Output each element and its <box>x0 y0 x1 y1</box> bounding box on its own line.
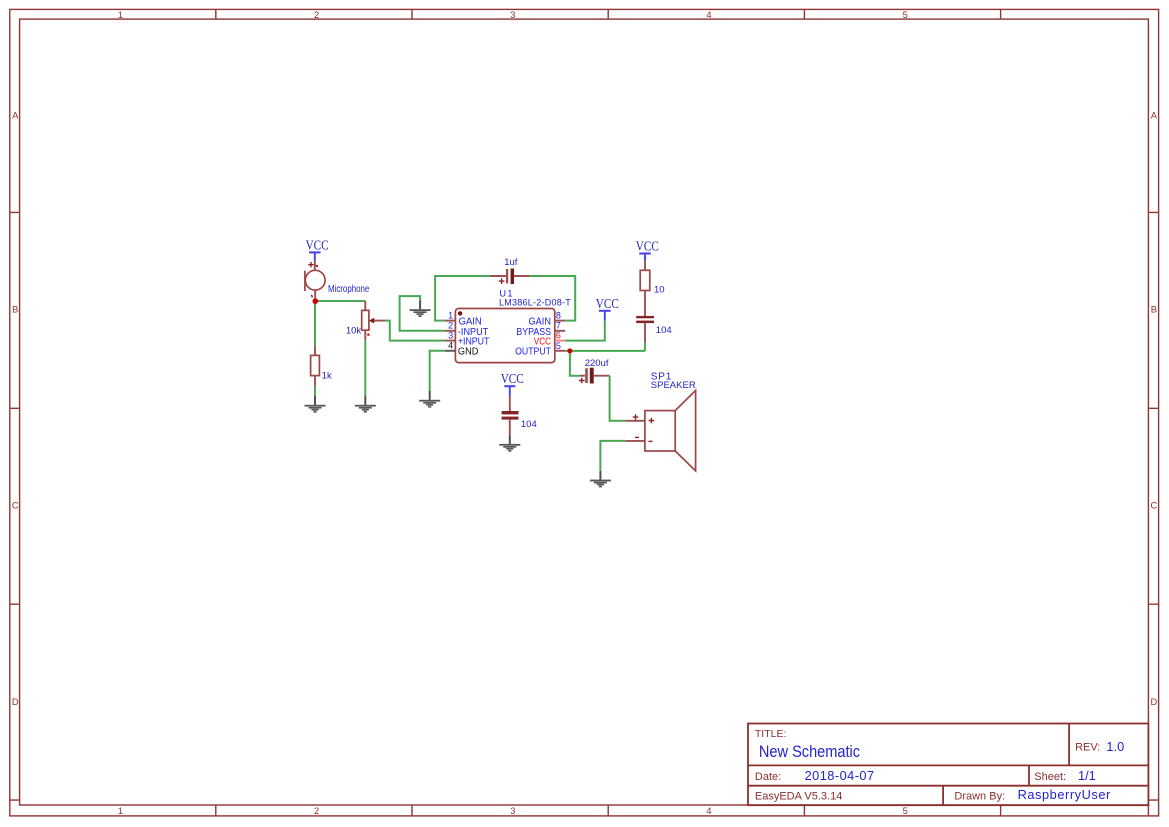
pin 8 GAIN <box>555 320 565 322</box>
ground mid loop <box>410 300 431 317</box>
svg-text:1uf: 1uf <box>504 257 518 268</box>
pin 1uf left <box>490 275 506 277</box>
pin 1uf right <box>514 275 530 277</box>
svg-text:2: 2 <box>314 806 319 816</box>
svg-text:1: 1 <box>118 806 123 816</box>
wire mic to 1k <box>314 301 316 346</box>
resistor R2 1k <box>311 346 320 386</box>
svg-text:VCC: VCC <box>501 372 524 387</box>
svg-text:VCC: VCC <box>636 239 659 254</box>
svg-text:1k: 1k <box>322 371 332 382</box>
svg-text:LM386L-2-D08-T: LM386L-2-D08-T <box>499 297 571 307</box>
svg-text:1: 1 <box>448 310 453 320</box>
wire output node to right chain <box>565 350 645 352</box>
ground below 10k <box>355 396 376 413</box>
svg-text:1/1: 1/1 <box>1078 768 1096 783</box>
wire speaker minus to ground <box>600 441 625 471</box>
pin 3 +INPUT <box>445 340 456 342</box>
ruler ticks right <box>1148 212 1158 816</box>
wire 10k to ground <box>364 340 366 396</box>
ruler ticks top <box>216 9 1001 19</box>
ground below C2 <box>499 435 520 452</box>
pin 5 OUTPUT <box>555 350 565 352</box>
wire 1uf to pin8 <box>530 276 576 321</box>
pin 2 -INPUT <box>445 330 456 332</box>
capacitor C3 104 <box>636 316 654 343</box>
svg-text:VCC: VCC <box>596 297 619 312</box>
svg-text:3: 3 <box>448 330 453 340</box>
svg-text:RaspberryUser: RaspberryUser <box>1018 787 1111 802</box>
wire VCC3 to pin6 <box>565 321 605 341</box>
capacitor C1 1uf <box>499 269 514 285</box>
svg-text:3: 3 <box>510 10 515 20</box>
wire 220uf to speaker plus <box>610 376 626 421</box>
svg-text:5: 5 <box>903 10 908 20</box>
svg-text:2: 2 <box>448 321 453 331</box>
ruler letters right <box>1150 110 1157 707</box>
svg-text:REV:: REV: <box>1075 742 1100 754</box>
svg-text:D: D <box>12 697 19 707</box>
ruler numbers bottom <box>118 806 908 816</box>
ground below pin4 <box>419 391 440 408</box>
svg-text:3: 3 <box>510 806 515 816</box>
pin 4 GND <box>445 350 456 352</box>
svg-text:104: 104 <box>521 419 537 430</box>
wire C3 to output node <box>644 343 646 351</box>
svg-text:6: 6 <box>556 330 561 340</box>
ruler ticks bottom <box>216 805 1001 816</box>
ruler numbers top <box>118 10 908 20</box>
power flag VCC net VCC2 <box>501 372 524 396</box>
svg-text:C: C <box>12 501 19 511</box>
svg-text:2018-04-07: 2018-04-07 <box>805 768 875 783</box>
svg-text:4: 4 <box>706 806 711 816</box>
svg-text:Date:: Date: <box>755 771 781 783</box>
svg-text:GND: GND <box>458 347 479 358</box>
wire mic to 10k <box>315 300 365 302</box>
ground below speaker <box>590 471 611 488</box>
junction node mic output <box>313 298 319 304</box>
power flag VCC net VCC3 <box>596 297 619 321</box>
svg-text:2: 2 <box>314 10 319 20</box>
svg-text:1: 1 <box>118 10 123 20</box>
speaker SP1 <box>625 390 695 471</box>
power flag VCC net VCC1 <box>306 238 329 261</box>
wire wiper to +INPUT pin3 <box>385 321 445 341</box>
svg-text:5: 5 <box>903 806 908 816</box>
capacitor C2 104 <box>502 396 519 435</box>
svg-text:B: B <box>12 305 18 315</box>
svg-text:OUTPUT: OUTPUT <box>515 347 551 358</box>
svg-text:4: 4 <box>448 341 453 351</box>
svg-text:5: 5 <box>556 341 561 351</box>
resistor R3 10 <box>640 261 650 316</box>
svg-text:TITLE:: TITLE: <box>755 728 787 740</box>
IC U1 LM386L-2-D08-T <box>445 309 565 363</box>
svg-text:10: 10 <box>654 284 665 295</box>
svg-text:SPEAKER: SPEAKER <box>651 380 696 391</box>
pin 6 VCC <box>555 340 565 342</box>
svg-text:C: C <box>1150 501 1157 511</box>
svg-text:4: 4 <box>706 10 711 20</box>
svg-text:A: A <box>1151 110 1158 120</box>
ruler letters left <box>12 110 19 707</box>
svg-text:220uf: 220uf <box>585 358 609 369</box>
pin 1 GAIN <box>445 320 456 322</box>
svg-text:7: 7 <box>556 321 561 331</box>
svg-text:D: D <box>1150 697 1157 707</box>
ruler ticks left <box>10 212 20 800</box>
wire -INPUT pin2 to ground loop <box>400 296 445 331</box>
capacitor C4 220uf <box>579 368 610 384</box>
svg-text:1.0: 1.0 <box>1106 739 1124 754</box>
title block frame <box>748 724 1148 806</box>
junction node output <box>567 348 572 353</box>
svg-text:EasyEDA V5.3.14: EasyEDA V5.3.14 <box>755 790 842 802</box>
svg-text:New Schematic: New Schematic <box>759 742 861 761</box>
microphone MK1 <box>305 261 325 299</box>
ground below 1k <box>305 396 326 413</box>
svg-text:10k: 10k <box>346 325 362 336</box>
svg-text:A: A <box>12 110 19 120</box>
wire 1k to ground <box>314 386 316 396</box>
svg-text:B: B <box>1151 305 1157 315</box>
svg-text:Drawn By:: Drawn By: <box>954 790 1005 802</box>
svg-text:8: 8 <box>556 310 561 320</box>
potentiometer R1 10k <box>362 301 385 340</box>
power flag VCC net VCC4 <box>636 239 659 261</box>
svg-text:Microphone: Microphone <box>328 284 370 295</box>
wire GND pin4 to ground <box>430 351 445 391</box>
wire output node down to 220uf <box>570 351 580 376</box>
pin 7 BYPASS <box>555 330 565 332</box>
svg-text:Sheet:: Sheet: <box>1034 771 1066 783</box>
svg-text:104: 104 <box>656 325 672 336</box>
wire pin1 to 1uf <box>435 276 490 321</box>
svg-text:VCC: VCC <box>306 238 329 253</box>
